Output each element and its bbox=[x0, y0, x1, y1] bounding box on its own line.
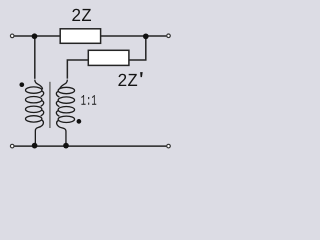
terminal: input top bbox=[10, 34, 14, 38]
resistor 2Z (series impedance box) bbox=[60, 29, 100, 44]
junction node D (bottom rail / secondary) bbox=[63, 143, 69, 149]
polarity dot (primary, top left) bbox=[19, 82, 24, 87]
terminal: input bottom bbox=[10, 144, 14, 148]
polarity dot (secondary, bottom right) bbox=[77, 119, 82, 124]
junction node A (top rail / primary) bbox=[32, 33, 38, 39]
label 2Z' bbox=[118, 74, 137, 86]
transformer ratio label 1:1 bbox=[81, 95, 96, 105]
transformer primary winding L1 (left coil) bbox=[26, 80, 44, 146]
resistor 2Z' (bridging impedance box) bbox=[88, 50, 129, 65]
junction node C (bottom rail / primary) bbox=[32, 143, 38, 149]
label 2Z bbox=[72, 9, 91, 21]
transformer secondary winding L2 (right coil) bbox=[56, 80, 74, 146]
wire: top rail right segment bbox=[101, 35, 167, 37]
wire: 2Z' left lead to secondary top bbox=[67, 60, 88, 79]
junction node B (top rail / 2Z' branch) bbox=[143, 33, 149, 39]
wire: left vertical branch from node A down to transformer primary bbox=[34, 36, 36, 79]
terminal: output bottom bbox=[167, 144, 171, 148]
label 2Z' prime tick bbox=[140, 72, 143, 77]
terminal: output top bbox=[167, 34, 171, 38]
wire: bottom rail bbox=[14, 145, 166, 147]
wire: node B down to 2Z' right lead bbox=[129, 37, 146, 61]
transformer core bbox=[49, 82, 51, 128]
wire: top rail left segment bbox=[14, 35, 60, 37]
